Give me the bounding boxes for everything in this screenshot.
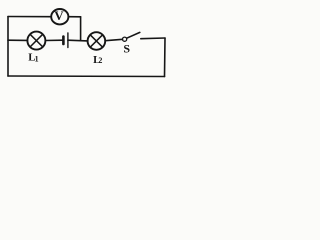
svg-text:1: 1 [35, 55, 39, 64]
svg-text:V: V [54, 8, 64, 23]
svg-text:S: S [123, 41, 130, 55]
svg-text:2: 2 [98, 56, 102, 65]
